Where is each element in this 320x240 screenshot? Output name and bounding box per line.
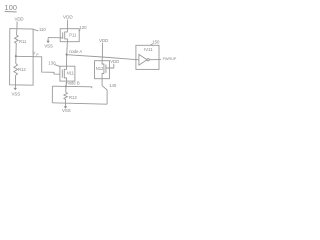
svg-text:120: 120 <box>79 25 87 30</box>
net label V_P <box>32 50 39 56</box>
svg-text:node A: node A <box>69 49 82 54</box>
svg-text:N12: N12 <box>96 66 104 71</box>
figure number 100 <box>4 3 17 12</box>
svg-text:VDD: VDD <box>63 15 73 20</box>
wire N11 drain to node A <box>66 55 68 66</box>
wire VDD stub left <box>16 21 18 28</box>
transistor P11 box 120 <box>60 29 79 42</box>
leader 130 <box>55 65 60 67</box>
ground VSS at P11 gate <box>46 41 49 43</box>
svg-text:node B: node B <box>66 81 79 86</box>
resistor R12 <box>14 64 18 76</box>
label 110 <box>39 27 46 32</box>
wire bottom rail <box>52 103 107 104</box>
node V_P junction <box>15 55 17 57</box>
node A junction <box>66 54 68 56</box>
wire into R11 <box>16 29 18 35</box>
wire R12 to box bottom <box>14 75 16 88</box>
svg-text:VSS: VSS <box>44 43 53 48</box>
resistor R13 <box>64 92 68 100</box>
svg-text:VSS: VSS <box>12 92 21 97</box>
wire node A <box>67 55 139 60</box>
leader 110 <box>34 29 39 30</box>
label 150 <box>152 40 160 45</box>
transistor N11 box 130 <box>60 66 75 81</box>
svg-text:IV11: IV11 <box>144 47 153 52</box>
svg-text:R12: R12 <box>18 67 26 72</box>
transistor P11 symbol <box>62 32 64 39</box>
wire tap to R12 <box>15 56 17 63</box>
wire node B wrap down <box>51 86 53 103</box>
resistor R11 <box>15 35 19 45</box>
VDD label top middle <box>63 15 73 20</box>
leader 150 <box>150 44 152 46</box>
leader 120 <box>79 30 80 32</box>
VDD label left <box>15 16 24 21</box>
node A label <box>69 49 82 54</box>
wire gate to ground <box>47 38 49 41</box>
wire VDD stub P11 <box>67 20 69 29</box>
wire P11 drain down <box>66 42 69 55</box>
wire N12 gate to VDD <box>106 64 114 68</box>
svg-text:P11: P11 <box>69 32 77 37</box>
ground VSS left <box>14 88 17 90</box>
node B junction <box>65 85 67 87</box>
transistor N12 symbol <box>103 64 105 74</box>
svg-text:VDD: VDD <box>110 59 119 64</box>
transistor N11 symbol <box>61 70 63 78</box>
svg-text:VSS: VSS <box>62 108 71 113</box>
inverter box 150 <box>136 45 159 69</box>
wire VDD stub to N12 <box>101 43 103 61</box>
wire R13 to ground <box>65 100 67 106</box>
label 130 <box>48 60 56 65</box>
svg-text:N11: N11 <box>67 71 75 76</box>
svg-text:VDD: VDD <box>15 16 24 21</box>
svg-text:140: 140 <box>109 83 117 88</box>
wire P11 gate <box>48 37 63 39</box>
label 120 <box>79 25 87 30</box>
wire node B to R13 <box>65 86 67 92</box>
inverter IV11 <box>139 54 147 65</box>
wire inverter output PWRUP <box>149 59 161 61</box>
svg-text:R13: R13 <box>69 95 77 100</box>
svg-text:150: 150 <box>152 40 160 45</box>
wire R11 to tap <box>15 45 17 57</box>
svg-text:VDD: VDD <box>99 38 108 43</box>
svg-text:100: 100 <box>4 3 17 12</box>
svg-text:PWRUP: PWRUP <box>163 57 177 61</box>
svg-text:R11: R11 <box>19 39 27 44</box>
node B label <box>66 81 79 86</box>
wire N11 source to node B <box>65 81 68 86</box>
wire N12 source jog down <box>102 79 107 105</box>
ground VSS center <box>64 106 67 108</box>
svg-text:110: 110 <box>39 27 46 32</box>
wire V_P horizontal <box>16 56 60 74</box>
wire node B <box>52 86 91 88</box>
VDD label middle <box>99 38 108 43</box>
transistor N12 box 140 <box>95 61 110 79</box>
voltage divider box 110 <box>10 29 33 86</box>
label 140 <box>109 83 117 88</box>
